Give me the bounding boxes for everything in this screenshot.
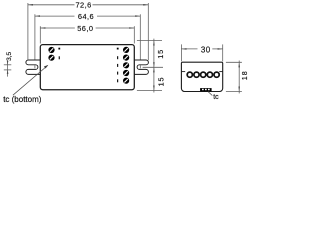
- svg-text:15: 15: [156, 77, 165, 87]
- device body outline: [40, 45, 134, 90]
- svg-text:tc (bottom): tc (bottom): [3, 95, 42, 104]
- svg-text:30: 30: [201, 46, 211, 55]
- terminal R5: [123, 78, 129, 84]
- leader line tc (bottom): [13, 66, 48, 96]
- svg-text:64,6: 64,6: [78, 12, 94, 21]
- extension line left 30: [180, 44, 182, 61]
- terminal R2: [123, 55, 129, 61]
- label dot for terminal R1: [117, 48, 119, 50]
- extension line right 30: [222, 44, 224, 61]
- label bar for terminal R5: [117, 79, 118, 82]
- terminal L2 (left column bottom): [48, 55, 54, 61]
- left mounting tab with keyhole slot: [26, 60, 40, 74]
- extension line right 72,6: [147, 3, 149, 60]
- terminal R4: [123, 70, 129, 76]
- dimension line 15/15: [153, 39, 155, 93]
- extension line left 72,6: [27, 3, 29, 60]
- svg-text:18: 18: [240, 70, 249, 80]
- leader line tc: [208, 92, 212, 96]
- case parting line left: [181, 71, 185, 73]
- tick bottom 3,5: [4, 69, 12, 71]
- terminal R1: [123, 47, 129, 53]
- wiring hole 1: [187, 72, 192, 77]
- end view body outline: [181, 62, 222, 91]
- svg-text:72,6: 72,6: [76, 1, 92, 10]
- svg-text:3,5: 3,5: [6, 52, 13, 61]
- right mounting tab with keyhole slot: [134, 60, 148, 74]
- tick bottom 18: [226, 91, 242, 93]
- label bar for terminal R4: [117, 72, 118, 75]
- tick top 3,5: [4, 64, 12, 66]
- extension line left 56,0: [39, 26, 41, 43]
- dimension line 72,6: [28, 4, 75, 6]
- dimension line 56,0: [40, 27, 75, 29]
- wiring hole 3: [201, 72, 206, 77]
- extension line right 56,0: [133, 26, 135, 43]
- tick bottom 15: [137, 90, 162, 92]
- tick middle 15 (slot centre extension): [143, 66, 163, 68]
- dimension line 30: [181, 48, 197, 50]
- dimension line 3,5: [7, 62, 9, 77]
- wiring hole 4: [207, 72, 212, 77]
- dimension line 64,6: [35, 15, 75, 17]
- terminal R3: [123, 62, 129, 68]
- label bar for terminal R2: [117, 56, 118, 59]
- tick top 15: [137, 39, 162, 41]
- tc marking plate at bottom: [200, 88, 212, 91]
- svg-text:tc: tc: [213, 94, 219, 101]
- wiring hole 2: [194, 72, 199, 77]
- dimension line 18: [238, 61, 240, 94]
- tick top 18: [226, 61, 242, 63]
- terminal L1 (left column top): [48, 47, 54, 53]
- case parting line right: [219, 71, 222, 73]
- label bar for terminal R3: [117, 64, 118, 67]
- label bar for terminal L2: [59, 56, 60, 59]
- extension line left 64,6: [34, 14, 36, 59]
- label dot for terminal L1: [58, 48, 60, 50]
- svg-text:15: 15: [156, 49, 165, 59]
- extension line right 64,6: [139, 14, 141, 59]
- wiring hole 5: [214, 72, 219, 77]
- svg-text:56,0: 56,0: [77, 24, 93, 33]
